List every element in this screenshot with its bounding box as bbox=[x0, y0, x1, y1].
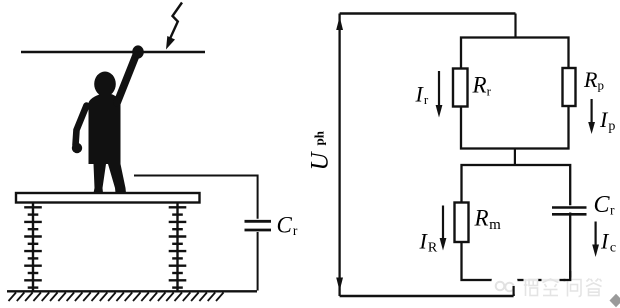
watermark char wu bbox=[524, 279, 538, 297]
insulated platform bbox=[16, 193, 200, 203]
rect2 corner re-stroke bbox=[564, 271, 571, 280]
wire capacitor to ground bbox=[257, 232, 259, 291]
bottom stub lower segment over watermark bbox=[512, 286, 514, 296]
current arrow Ir bbox=[436, 71, 443, 118]
loop rect1 (Rr parallel Rp) bbox=[461, 38, 569, 149]
lightning stroke arrow bbox=[166, 3, 182, 50]
top wire bbox=[340, 12, 516, 14]
arrowhead down bbox=[336, 278, 343, 292]
current arrow Ic bbox=[592, 222, 599, 258]
left insulator stack bbox=[24, 203, 42, 292]
overhead conductor line bbox=[21, 51, 205, 54]
watermark char da bbox=[585, 277, 603, 297]
Uph source line with arrows bbox=[338, 14, 340, 297]
watermark char wen bbox=[566, 278, 583, 297]
person silhouette bbox=[72, 45, 144, 193]
watermark char kong bbox=[542, 278, 560, 297]
ground plane with hatching bbox=[7, 290, 257, 292]
right insulator stack bbox=[169, 203, 187, 292]
capacitor Cr (left diagram) bbox=[245, 221, 272, 230]
capacitor Cr (circuit) bbox=[552, 205, 587, 214]
bottom wire bbox=[340, 295, 514, 297]
watermark wukong logo bbox=[492, 276, 518, 295]
resistor Rr bbox=[453, 69, 468, 107]
current arrow IR bbox=[440, 206, 447, 251]
watermark corner diamond bbox=[610, 294, 620, 307]
wire from platform to capacitor Cr bbox=[134, 176, 258, 219]
resistor Rm bbox=[455, 203, 469, 243]
arrowhead up bbox=[336, 17, 343, 31]
bottom stub from rect2 bbox=[512, 280, 514, 296]
resistor Rp bbox=[563, 68, 576, 106]
current arrow Ip bbox=[588, 99, 595, 134]
middle connecting wire bbox=[514, 149, 516, 166]
wire down to rect1 bbox=[514, 14, 516, 39]
loop rect2 (Rm parallel Cr) bbox=[462, 165, 571, 280]
